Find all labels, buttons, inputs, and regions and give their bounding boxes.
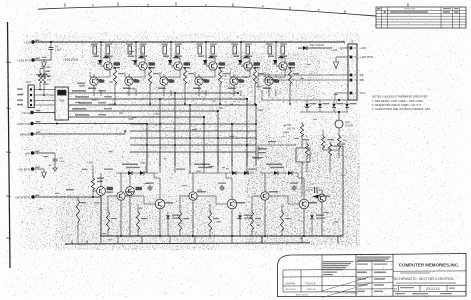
node at AR1 feed [338, 99, 340, 101]
wire +5V RTN [33, 168, 45, 170]
svg-text:+12V: +12V [24, 40, 31, 44]
resistor R2 [42, 71, 45, 85]
svg-text:NOTES: UNLESS OTHERWISE SPECIF: NOTES: UNLESS OTHERWISE SPECIFIED [372, 95, 428, 99]
svg-text:TACH: TACH [22, 111, 30, 115]
resistor R5 [113, 68, 116, 86]
svg-text:USED ON: USED ON [307, 289, 316, 291]
transistor Q13 [117, 192, 125, 200]
revision entry A [384, 11, 386, 13]
resistor R9 [163, 46, 167, 54]
wire TACH [32, 112, 55, 114]
wire stage internal [230, 76, 238, 78]
wire stage drop [100, 90, 102, 96]
resistor R15 [233, 46, 237, 54]
wire +12V bus [33, 41, 345, 43]
resistor R4 [106, 46, 110, 54]
connector pin +12V RTN [31, 58, 34, 61]
connector pin +12V [31, 40, 34, 43]
bottom ground rail stubs [100, 236, 102, 243]
connector pin BRAKE [30, 132, 33, 135]
wire MTR ON [32, 123, 147, 125]
transistor Q14 [155, 199, 165, 209]
transistor Q2 [90, 77, 98, 85]
svg-text:10K: 10K [47, 80, 51, 82]
diode CR13 [274, 171, 278, 175]
wire stage drop [135, 90, 137, 96]
resistor R21 label [122, 164, 138, 166]
resistor R14 [218, 68, 221, 86]
transistor Q4 [125, 77, 133, 85]
wire diode row bottom [300, 111, 348, 113]
resistor R3 [93, 46, 97, 54]
diode CR11 [244, 171, 248, 175]
svg-text:7442: 7442 [58, 99, 65, 103]
svg-text:ΦB: ΦB [360, 78, 364, 82]
svg-text:DO NOT SCALE DRAWING: DO NOT SCALE DRAWING [336, 292, 359, 295]
ground arrow on +12V RTN [43, 60, 45, 62]
wire stage drop [275, 90, 277, 96]
wire stage 2 feed [135, 42, 137, 62]
transistor Q16 [126, 187, 135, 196]
wire stage 1 feed [100, 42, 102, 62]
wire to J2 pin 8 [340, 47, 348, 49]
wire stage bottom drop [167, 224, 169, 236]
stage value labels [163, 56, 169, 57]
zener CR12 [239, 212, 241, 215]
resistor R11 [183, 68, 186, 86]
wire FG [335, 92, 348, 94]
transistor Q7 [209, 62, 217, 70]
transistor Q17 [261, 192, 269, 200]
wire +12V RTN [33, 59, 51, 61]
capacitor C4 [50, 42, 52, 46]
wire right column [306, 158, 308, 173]
resistor R34 [300, 122, 303, 138]
wire phase A [258, 74, 348, 76]
wire stage drop [240, 90, 242, 96]
wire U1 output 2 RPM [68, 110, 218, 112]
wire stage 3 feed [170, 42, 172, 62]
diode CR5 [238, 60, 242, 64]
resistor R44 [328, 142, 331, 158]
stage value labels [233, 56, 239, 57]
resistor R25 [178, 210, 181, 232]
transistor Q5 [174, 62, 182, 70]
resistor R28 [250, 210, 253, 232]
IC U1 7442 [55, 87, 68, 120]
resistor R40 [337, 134, 340, 150]
svg-text:SCHEMATIC, MOTOR CONTROL: SCHEMATIC, MOTOR CONTROL [394, 276, 456, 281]
wire stage bottom drop [311, 224, 313, 236]
transistor Q15 [97, 187, 106, 196]
size and dwg number row [393, 284, 466, 286]
resistor R14 [92, 166, 94, 177]
svg-text:+12V: +12V [140, 162, 146, 165]
diode CR13 [346, 100, 348, 103]
lower box outline [342, 146, 344, 236]
ground below C15 [54, 165, 56, 168]
connector J2 [348, 44, 357, 100]
svg-text:75000: 75000 [305, 282, 316, 286]
resistor R20 [288, 68, 291, 86]
wire diode pair rail [188, 172, 254, 174]
svg-text:+MTR RTN: +MTR RTN [15, 195, 30, 199]
resistor R16 [246, 46, 250, 54]
connector J1 [28, 85, 34, 108]
wire R1 R2 to J1 rows [39, 85, 41, 90]
opto U2 [296, 148, 310, 162]
ground arrow near J2 [335, 57, 337, 62]
wire cluster mid [261, 90, 263, 100]
diode CR2 [133, 60, 137, 64]
resistor R6 [128, 46, 132, 54]
wire stage internal [195, 76, 203, 78]
wire U1 output 1 RPM [68, 104, 256, 106]
wire stage drop [205, 90, 207, 96]
wire stage 5 feed [240, 42, 242, 62]
wire phase B [263, 79, 348, 81]
svg-text:+MTR ON: +MTR ON [16, 122, 30, 126]
svg-text:D: D [394, 288, 397, 292]
resistor R15 [76, 198, 79, 224]
svg-text:10K 1%: 10K 1% [287, 128, 295, 130]
wire stage drop [170, 90, 172, 96]
capacitor C15 [54, 153, 56, 157]
svg-text:+12V: +12V [331, 48, 337, 52]
ground arrow on +5V RTN [43, 169, 45, 172]
wire U1 output 4 RPM 'D' [68, 92, 238, 94]
resistor R23 [136, 210, 139, 232]
diode CR1 [98, 60, 102, 64]
capacitor C10 [149, 185, 151, 187]
svg-text:1.0μF: 1.0μF [59, 161, 65, 163]
svg-text:+12V: +12V [87, 161, 93, 165]
wire lower left rail [100, 197, 102, 236]
bottom rail [100, 235, 343, 237]
svg-text:2. RESISTORS ARE IN OHMS, ¼W,: 2. RESISTORS ARE IN OHMS, ¼W, 5 %. [372, 103, 422, 107]
resistor R1 [38, 71, 41, 85]
transistor Q16 [227, 199, 237, 209]
transistor Q14 [318, 194, 326, 202]
resistor R12 [198, 46, 202, 54]
resistor R22 [106, 210, 109, 232]
resistor R29 [280, 210, 283, 232]
svg-text:CR8: CR8 [310, 45, 315, 47]
svg-text:+12V RTN: +12V RTN [17, 58, 31, 62]
wire gap verticals [146, 152, 148, 173]
svg-text:P/J1: P/J1 [26, 81, 31, 84]
diode CR3 [168, 60, 172, 64]
capacitor C11 [221, 185, 223, 187]
wire +5V [33, 152, 56, 154]
resistor R43 [305, 142, 308, 158]
svg-text:3. CAPACITORS ARE IN MICRO-FAR: 3. CAPACITORS ARE IN MICRO-FARADS, 10%. [372, 107, 431, 111]
diode CR6 [273, 60, 277, 64]
resistor R19 [281, 46, 285, 54]
transistor Q18 [299, 199, 309, 209]
diode CR8 [298, 47, 332, 49]
title block application table [283, 269, 356, 272]
wire diode pair rail [260, 172, 298, 174]
svg-text:1.0μF: 1.0μF [55, 49, 62, 52]
wire stage internal [90, 76, 98, 78]
svg-text:+5V RTN: +5V RTN [18, 167, 30, 171]
stage value labels [128, 56, 134, 57]
transistor Q6 [160, 77, 168, 85]
wire BRAKE [32, 133, 125, 135]
regulator AR1 [335, 120, 343, 128]
connector pin TACH [30, 111, 33, 114]
title block outline [278, 254, 467, 298]
resistor R8 [148, 68, 151, 86]
svg-text:APPLICATION: APPLICATION [296, 293, 309, 296]
diode CR11 [319, 100, 321, 103]
resistor R18 [268, 46, 272, 54]
tolerance fine print [323, 261, 354, 262]
label tab arrow [313, 195, 318, 198]
svg-text:+12V RTN: +12V RTN [63, 58, 79, 62]
resistor R3 horizontal [38, 74, 50, 77]
transistor Q3 [139, 62, 147, 70]
zener CR15 [311, 212, 313, 215]
svg-text:+12V: +12V [360, 46, 367, 50]
sheet bottom border [65, 243, 310, 244]
wire diode row top [262, 99, 348, 101]
stage value labels [268, 56, 274, 57]
zener CR9 [167, 212, 169, 215]
wire stage bottom drop [239, 224, 241, 236]
svg-text:BRAKE: BRAKE [20, 132, 30, 136]
stage value labels [198, 56, 204, 57]
wire U1 output L RPM [68, 116, 204, 118]
svg-text:(FG): (FG) [360, 91, 366, 95]
connector pin +5V [31, 151, 34, 154]
svg-text:250216: 250216 [426, 287, 440, 291]
misc scan marks [109, 151, 113, 152]
transistor Q10 [230, 77, 238, 85]
svg-text:R34: R34 [287, 125, 292, 127]
diode CR10 [232, 171, 236, 175]
wire to AR1 [338, 112, 340, 120]
capacitor C12 label [77, 83, 85, 84]
do-not-scale diagonals [322, 277, 371, 292]
transistor Q11 [279, 62, 287, 70]
svg-text:COMPUTER MEMORIES,INC.: COMPUTER MEMORIES,INC. [399, 263, 459, 268]
approvals block [356, 260, 393, 262]
resistor R10 [176, 46, 180, 54]
resistor R26 [208, 210, 211, 232]
resistor R27 label [266, 164, 282, 166]
wire left rail stub [77, 236, 79, 243]
stage value labels [93, 56, 99, 57]
wire U1 output MTR ON + [68, 98, 247, 100]
diode CR8 [140, 171, 144, 175]
sheet top border [38, 6, 376, 16]
svg-text:ΦA: ΦA [360, 73, 364, 77]
capacitor C12 [293, 185, 295, 187]
diode CR12 [333, 100, 335, 103]
wire diode pair rail [116, 172, 158, 174]
diode CR7 [128, 171, 132, 175]
revision table [376, 7, 466, 28]
connector pin +5V RTN [31, 167, 34, 170]
resistor R39 [321, 134, 324, 150]
wire stage internal [160, 76, 168, 78]
svg-text:+5V: +5V [25, 151, 30, 155]
transistor Q8 [195, 77, 203, 85]
svg-text:+12V: +12V [45, 67, 51, 69]
resistor R7 [141, 46, 145, 54]
transistor Q9 [244, 62, 252, 70]
resistor R13 [211, 46, 215, 54]
resistor R24 label [194, 164, 210, 166]
resistor R17 [253, 68, 256, 86]
connector pin MTR RTN [31, 195, 34, 198]
wire stage 6 feed [275, 42, 277, 62]
wire stage internal [265, 76, 273, 78]
transistor Q15 [189, 192, 197, 200]
wire MTR RTN [33, 196, 101, 198]
transistor Q12 [265, 77, 273, 85]
wire stage internal [125, 76, 133, 78]
routing bus grid [130, 123, 256, 125]
diode CR10 [306, 100, 308, 103]
diode CR4 [203, 60, 207, 64]
bus vertical drops [146, 124, 148, 166]
svg-text:20046: 20046 [285, 282, 295, 286]
wire stage 4 feed [205, 42, 207, 62]
svg-text:REVISIONS: REVISIONS [405, 9, 417, 11]
diode CR14 [288, 171, 292, 175]
wire mid right [258, 144, 296, 146]
connector pin MTR ON [30, 122, 33, 125]
svg-text:NEXT ASSY: NEXT ASSY [286, 288, 297, 291]
transistor Q1 [104, 62, 112, 70]
sheet left border [8, 22, 11, 268]
svg-text:1N4003: 1N4003 [316, 45, 325, 47]
svg-text:1. REF DESIG LAST USED / ASS: 1. REF DESIG LAST USED / ASSY DWG. [372, 99, 424, 103]
svg-text:C17: C17 [310, 184, 315, 186]
svg-text:+12V RTN: +12V RTN [360, 55, 374, 59]
svg-text:501299: 501299 [345, 125, 354, 128]
